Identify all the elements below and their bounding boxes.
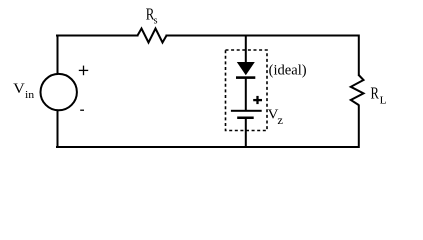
resistor R_s (zigzag) xyxy=(138,29,167,43)
label R_s xyxy=(146,5,158,27)
svg-text:V: V xyxy=(13,81,25,97)
wire: left vertical upper xyxy=(57,35,59,75)
wire: middle branch upper xyxy=(245,35,247,65)
svg-text:s: s xyxy=(154,16,158,27)
svg-text:(ideal): (ideal) xyxy=(269,62,307,78)
label R_L xyxy=(371,83,387,106)
diode D cathode bar xyxy=(236,76,255,79)
wire: top rail right segment xyxy=(166,35,360,37)
battery V_z: long positive plate xyxy=(231,110,262,112)
label V_in xyxy=(13,81,34,101)
wire: right vertical upper xyxy=(358,35,360,77)
wire: top rail left segment xyxy=(56,35,139,37)
wire: right vertical lower xyxy=(358,105,360,149)
dashed box (ideal zener model) xyxy=(226,50,268,131)
polarity - of V_in xyxy=(80,109,84,111)
svg-text:R: R xyxy=(371,83,380,102)
resistor R_L (vertical zigzag) xyxy=(351,75,364,105)
battery V_z: short negative plate xyxy=(237,117,254,120)
source V_in (circle) xyxy=(41,74,77,110)
polarity + of V_z (bold) xyxy=(253,96,262,104)
wire: bottom rail xyxy=(56,146,360,148)
svg-text:z: z xyxy=(277,113,283,127)
wire: middle branch lower xyxy=(245,119,247,149)
svg-text:L: L xyxy=(380,96,387,107)
svg-text:in: in xyxy=(25,90,34,101)
diode D (ideal) triangle xyxy=(237,62,255,75)
wire: middle between diode and battery xyxy=(245,78,247,110)
label (ideal) xyxy=(269,62,307,78)
polarity + of V_in xyxy=(79,66,88,76)
label V_z xyxy=(268,106,283,127)
wire: left vertical lower xyxy=(57,110,59,149)
